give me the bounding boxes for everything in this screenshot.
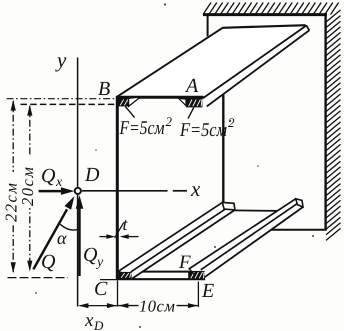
svg-text:F: F xyxy=(178,252,191,273)
svg-text:E: E xyxy=(201,280,214,302)
angle alpha arc xyxy=(60,224,79,230)
cross-section cap at B, F=5cm2 xyxy=(118,98,129,106)
wall left edge (upper visible part) xyxy=(207,14,209,40)
upper extension line for 22cm xyxy=(7,98,116,100)
svg-text:2: 2 xyxy=(166,114,173,129)
front bar rear end cap xyxy=(222,202,235,210)
left vertical member B-C xyxy=(116,96,119,280)
svg-text:x: x xyxy=(55,175,63,190)
rear bar top-rear edge xyxy=(189,199,296,269)
extension line below C xyxy=(117,281,119,307)
svg-text:α: α xyxy=(57,228,67,248)
leader F label to E cap xyxy=(189,269,195,275)
front bar bottom edge xyxy=(132,210,235,279)
force Qx arrow xyxy=(39,190,64,193)
svg-text:D: D xyxy=(93,318,104,331)
x-axis line xyxy=(82,190,168,192)
top bar plate white faces xyxy=(116,25,306,96)
svg-text:y: y xyxy=(55,48,67,72)
force Qy arrow xyxy=(78,207,80,277)
dimension line xD xyxy=(80,305,118,307)
cross-section cap at A, F=5cm2 xyxy=(186,98,202,107)
wall right edge xyxy=(324,13,326,230)
svg-text:B: B xyxy=(98,78,110,100)
svg-text:x: x xyxy=(190,177,201,201)
rear bar bottom edge xyxy=(205,207,303,277)
dimension line 10cm right part xyxy=(177,305,198,307)
svg-text:20см: 20см xyxy=(18,166,37,206)
svg-text:Q: Q xyxy=(41,251,56,273)
wall ledge line between bottom bars xyxy=(234,209,280,212)
top bar right top edge xyxy=(203,26,306,98)
bottom rear bar white fill xyxy=(189,199,304,278)
front bar top-rear edge xyxy=(119,202,222,270)
wall top edge xyxy=(203,13,327,16)
cross-section cap at C xyxy=(119,272,132,279)
bottom front bar white fill xyxy=(119,202,235,279)
cross-section cap at E xyxy=(188,271,204,280)
dimension 22cm vertical line xyxy=(12,101,14,272)
wedge at B cap xyxy=(129,97,141,106)
t dimension left arrow line xyxy=(100,236,111,238)
svg-text:x: x xyxy=(84,310,94,331)
dimension 20cm vertical line xyxy=(29,106,31,271)
node D circle xyxy=(75,188,81,194)
front bar ridge edge xyxy=(131,203,234,272)
svg-text:D: D xyxy=(84,164,100,186)
svg-text:y: y xyxy=(95,255,104,270)
bottom chord top edge C to E xyxy=(117,271,189,273)
t dimension right arrow line xyxy=(125,236,139,238)
t leader line xyxy=(115,223,124,238)
svg-text:C: C xyxy=(94,278,108,300)
wedge at A cap xyxy=(179,98,186,105)
svg-text:A: A xyxy=(184,75,199,97)
wall bottom edge xyxy=(268,229,327,231)
top bar right bottom edge xyxy=(207,30,309,106)
extension line below E xyxy=(197,282,199,308)
force Q arrow xyxy=(33,209,67,269)
leader B cap to F label xyxy=(125,106,134,117)
y-axis line xyxy=(77,58,79,307)
svg-text:2: 2 xyxy=(228,115,235,130)
right vertical member A-E line xyxy=(222,95,224,203)
svg-text:F=5см: F=5см xyxy=(179,120,227,141)
wall hatching right band xyxy=(326,10,341,240)
bottom chord bottom edge xyxy=(117,278,205,280)
svg-text:10см: 10см xyxy=(139,297,175,316)
rear bar rear end tip xyxy=(296,199,303,207)
top bar rear end tip closure xyxy=(306,25,309,30)
upper extension line for 20cm xyxy=(21,103,116,105)
svg-text:t: t xyxy=(123,214,129,234)
top bar rear edge at wall xyxy=(223,25,306,28)
wall hatching top band xyxy=(203,3,339,15)
svg-text:Q: Q xyxy=(83,244,98,266)
leader A cap to F label xyxy=(188,107,194,118)
lower extension line for 22cm xyxy=(8,277,69,279)
speckles xyxy=(164,3,166,5)
svg-text:Q: Q xyxy=(41,165,56,187)
top bar front edge B-A xyxy=(116,96,204,99)
dimension line 10cm left part xyxy=(118,305,138,307)
lower extension line piece near C xyxy=(100,279,117,281)
top bar left edge to wall xyxy=(117,28,223,97)
rear bar ridge edge xyxy=(201,200,302,269)
svg-text:F=5см: F=5см xyxy=(119,118,165,139)
x-axis end dash xyxy=(173,190,187,192)
